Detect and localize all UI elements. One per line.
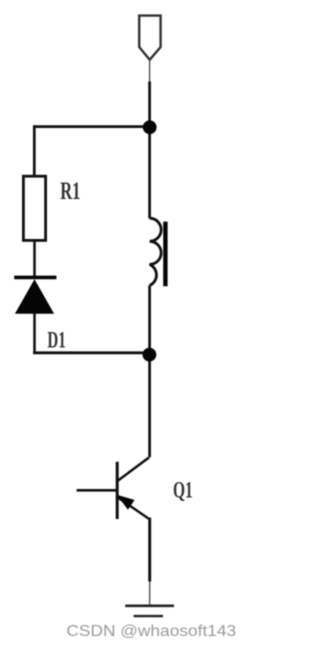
svg-text:Q1: Q1 [173, 477, 193, 503]
svg-text:R1: R1 [60, 178, 80, 205]
svg-text:D1: D1 [47, 328, 65, 354]
svg-text:CSDN @whaosoft143: CSDN @whaosoft143 [66, 623, 236, 640]
